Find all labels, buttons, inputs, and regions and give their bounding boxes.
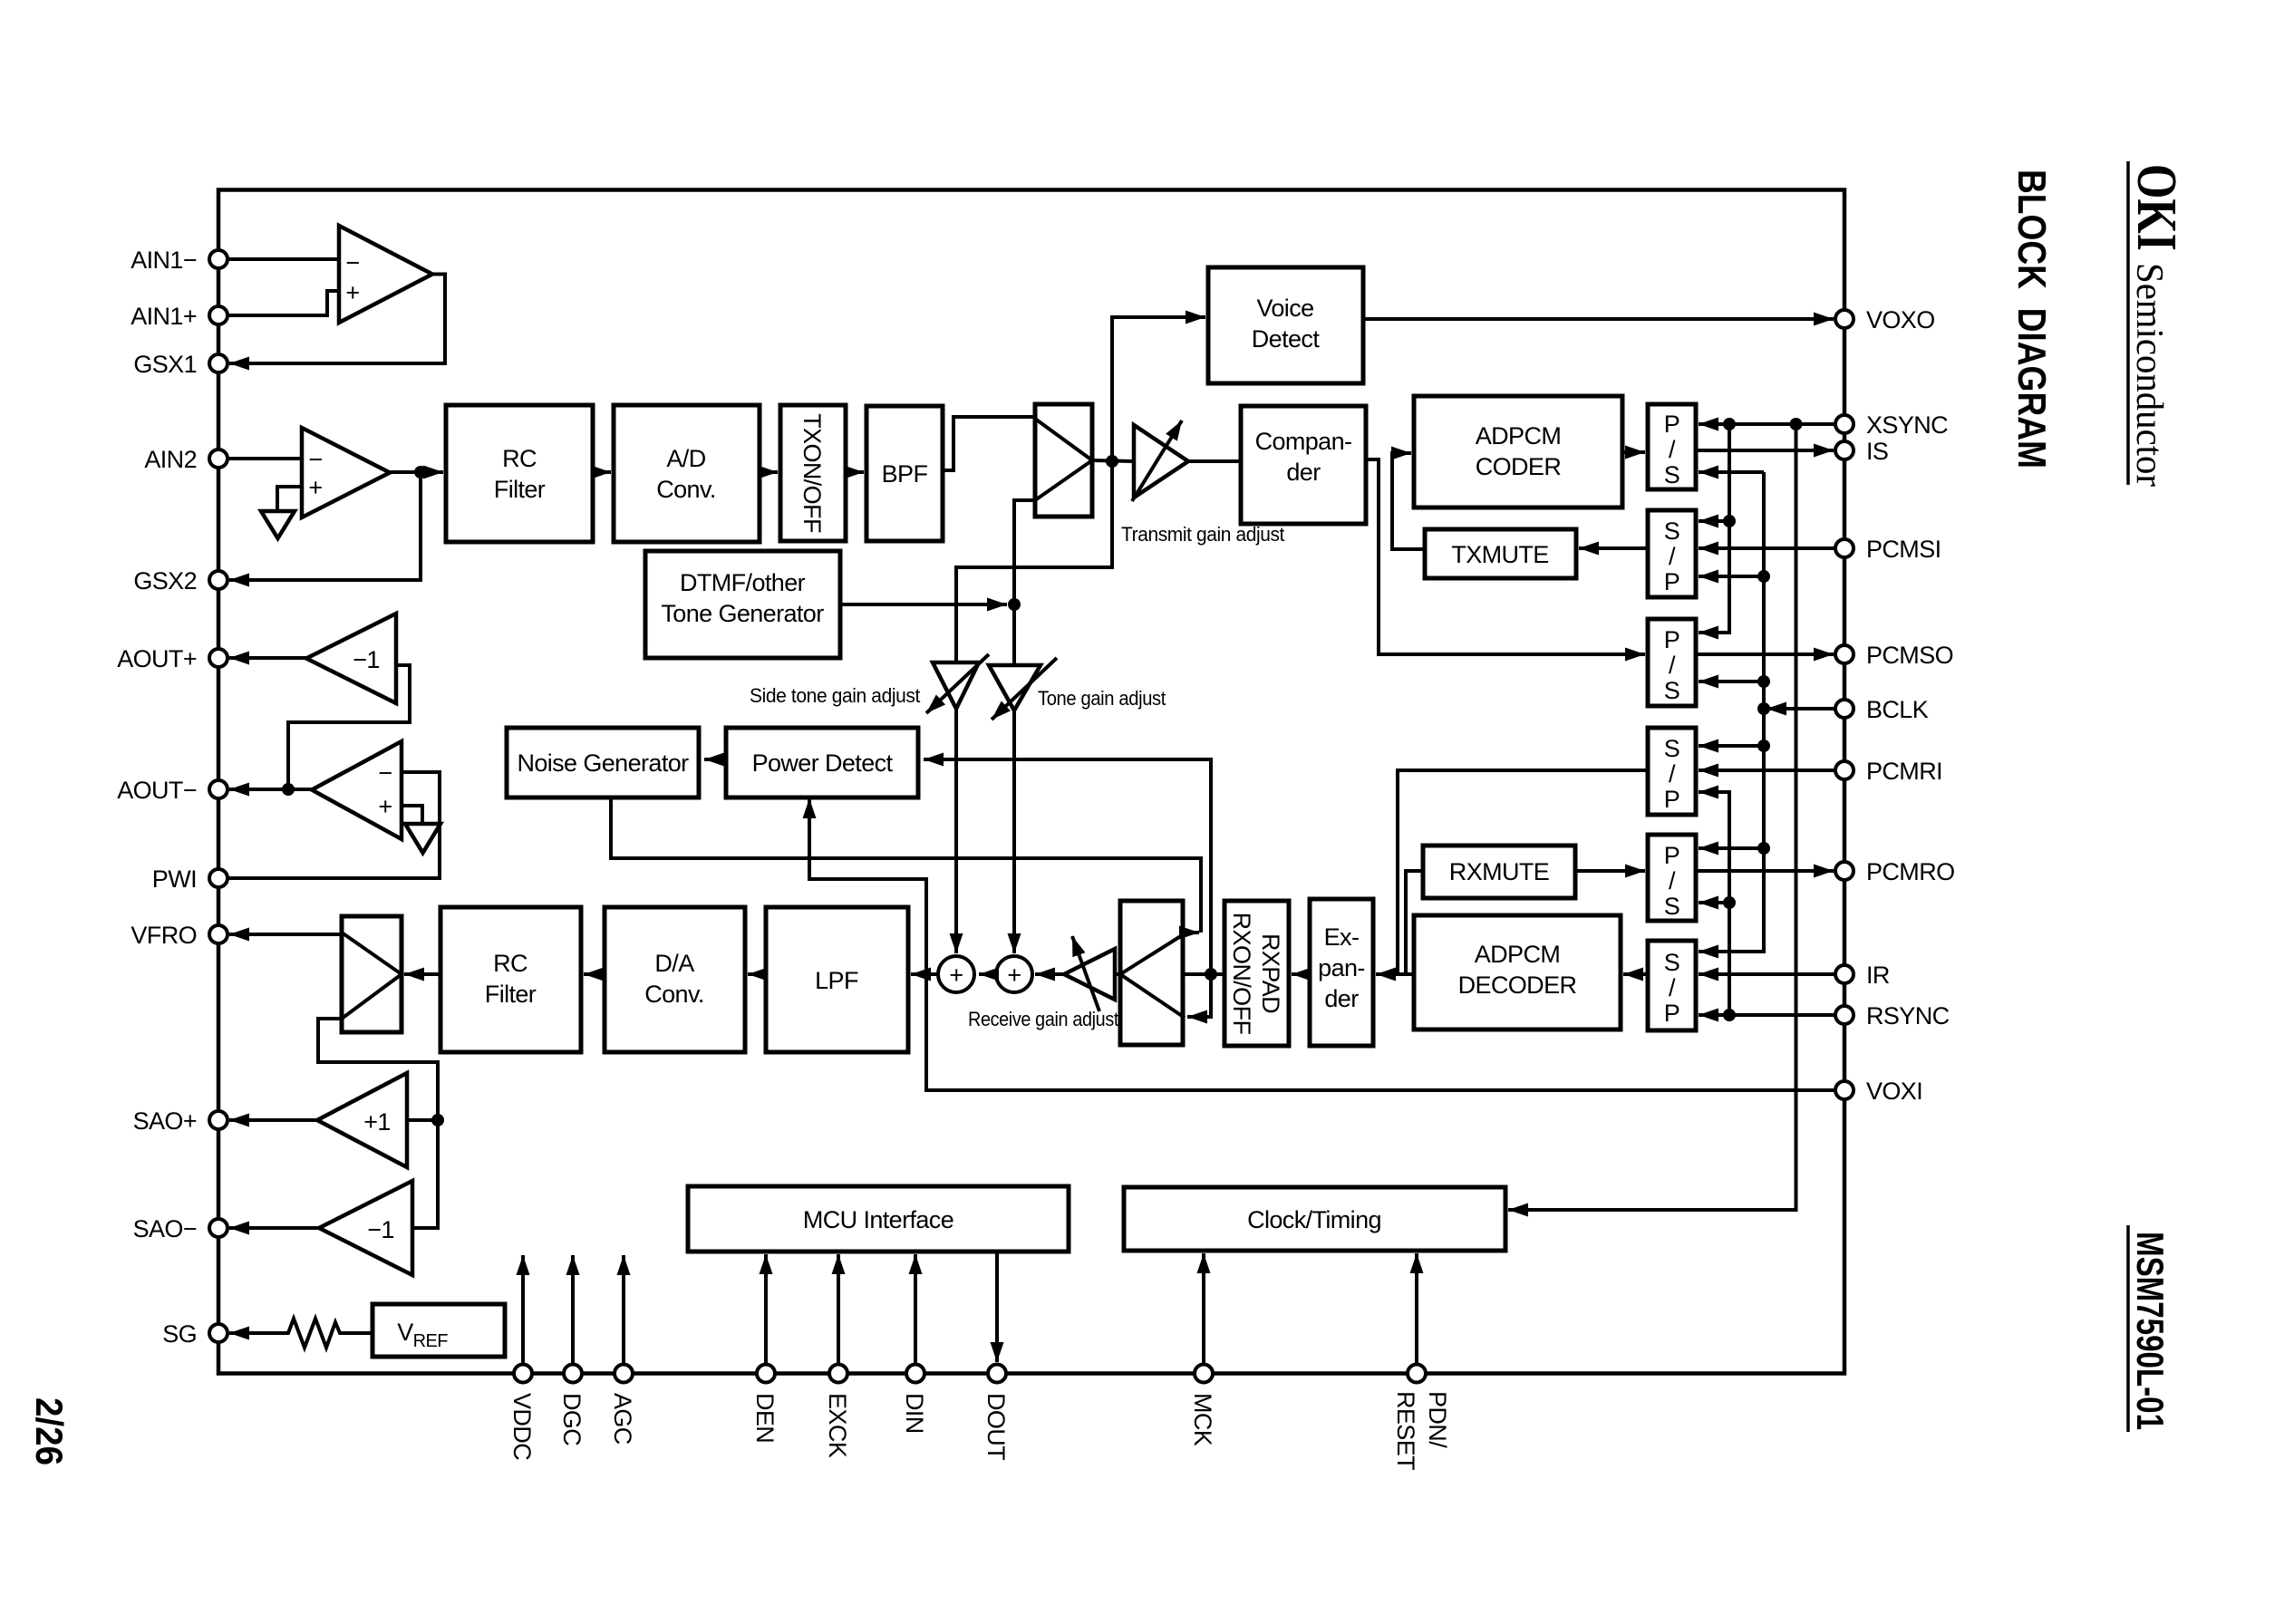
block BPF xyxy=(866,406,943,541)
node dot line B at 936 xyxy=(1757,842,1770,855)
block Noise Generator xyxy=(507,728,699,797)
wire RC Filter to A/D Conv xyxy=(593,470,611,474)
svg-text:Side tone gain adjust: Side tone gain adjust xyxy=(750,684,920,707)
svg-text:ADPCM: ADPCM xyxy=(1475,941,1561,968)
wire S1 to LPF xyxy=(911,972,938,976)
block RC Filter (transmit) xyxy=(446,405,593,542)
svg-text:SAO+: SAO+ xyxy=(133,1107,197,1135)
node AOUT- junction xyxy=(282,783,295,796)
node M1 output junction xyxy=(1106,455,1118,468)
wire DGC arrow xyxy=(571,1255,575,1365)
pin IR xyxy=(1835,965,1854,983)
side tone attenuator triangle xyxy=(933,662,979,709)
svg-text:P: P xyxy=(1664,626,1679,653)
pin VDDC xyxy=(514,1365,532,1383)
svg-text:+: + xyxy=(345,279,359,306)
selector M2 box (receive switch) xyxy=(1120,901,1183,1045)
svg-text:Filter: Filter xyxy=(494,476,546,503)
svg-text:S: S xyxy=(1664,735,1679,762)
selector M3 triangle xyxy=(342,933,402,1019)
svg-text:−: − xyxy=(308,446,322,473)
svg-text:MSM7590L-01: MSM7590L-01 xyxy=(2129,1232,2172,1430)
wire P/S1 output to IS pin xyxy=(1696,449,1834,452)
ground symbol at A2 xyxy=(261,511,295,538)
pin AOUT+ xyxy=(209,649,227,667)
pin AIN2 xyxy=(209,449,227,468)
buffer amp +1 (SAO+) xyxy=(317,1073,407,1167)
svg-text:−: − xyxy=(345,249,359,276)
pin SAO+ xyxy=(209,1111,227,1129)
svg-text:RC: RC xyxy=(502,445,537,472)
summer S2 xyxy=(996,956,1032,992)
svg-text:BLOCK DIAGRAM: BLOCK DIAGRAM xyxy=(2009,169,2054,469)
pin GSX1 xyxy=(209,354,227,372)
block Voice Detect xyxy=(1208,267,1363,383)
block RXMUTE xyxy=(1423,846,1575,898)
svg-text:XSYNC: XSYNC xyxy=(1866,411,1948,439)
svg-text:ADPCM: ADPCM xyxy=(1476,422,1562,449)
svg-text:EXCK: EXCK xyxy=(824,1393,851,1458)
pin BCLK xyxy=(1835,700,1854,718)
wire S/P2 output to TXMUTE xyxy=(1579,546,1648,550)
tone attenuator triangle xyxy=(989,665,1041,710)
svg-text:AIN1−: AIN1− xyxy=(131,246,197,274)
svg-text:Semiconductor: Semiconductor xyxy=(2128,263,2170,487)
pin DOUT xyxy=(988,1365,1006,1383)
wire junction down into M2 lower input xyxy=(1187,974,1211,1017)
svg-text:SAO−: SAO− xyxy=(133,1215,197,1242)
converter P/S 1 (XSYNC/IS) xyxy=(1648,404,1696,489)
svg-text:/: / xyxy=(1669,543,1676,570)
svg-text:Noise Generator: Noise Generator xyxy=(517,749,689,777)
svg-text:LPF: LPF xyxy=(815,967,858,994)
wire P/S5 output to PCMRO pin xyxy=(1696,869,1834,873)
pin PWI xyxy=(209,869,227,887)
svg-text:Receive gain adjust: Receive gain adjust xyxy=(968,1008,1118,1030)
wire M3 upper output to VFRO xyxy=(229,933,342,936)
sidebar rule top xyxy=(2126,161,2130,485)
svg-text:Filter: Filter xyxy=(485,981,537,1008)
svg-text:Voice: Voice xyxy=(1256,295,1313,322)
sidebar rule bottom xyxy=(2126,1225,2130,1432)
svg-text:Ex-: Ex- xyxy=(1324,923,1360,951)
wire Expander to RXPAD xyxy=(1292,972,1310,976)
wire M1 output to junction xyxy=(1092,460,1134,461)
svg-text:+: + xyxy=(378,793,392,820)
wire MCK to Clock/Timing xyxy=(1202,1253,1205,1365)
converter S/P 2 (PCMSI) xyxy=(1648,510,1696,597)
pin AOUT- xyxy=(209,780,227,798)
svg-text:P: P xyxy=(1664,568,1679,595)
wire Power Detect output to Noise Generator xyxy=(704,758,726,761)
resistor R1 xyxy=(280,1319,346,1348)
pin DIN xyxy=(906,1365,924,1383)
svg-text:Tone Generator: Tone Generator xyxy=(661,600,824,627)
wire RXMUTE output to P/S5 xyxy=(1575,869,1645,873)
svg-text:S: S xyxy=(1664,461,1679,488)
block TXON/OFF xyxy=(780,405,846,541)
block LPF xyxy=(766,907,908,1052)
svg-text:CODER: CODER xyxy=(1476,453,1562,480)
wire M3 lower output to line amps xyxy=(318,1019,438,1228)
chip outline border xyxy=(218,190,1844,1374)
svg-text:PCMSI: PCMSI xyxy=(1866,536,1941,563)
wire VDDC arrow xyxy=(521,1255,525,1365)
svg-text:GSX2: GSX2 xyxy=(133,567,197,594)
svg-text:S: S xyxy=(1664,677,1679,704)
pin AIN1- xyxy=(209,250,227,268)
svg-text:Transmit gain adjust: Transmit gain adjust xyxy=(1121,523,1284,546)
wire A3 feedback to PWI xyxy=(227,772,440,878)
node receive junction xyxy=(1205,968,1217,981)
svg-text:Conv.: Conv. xyxy=(644,981,704,1008)
pin AGC xyxy=(615,1365,633,1383)
svg-text:+: + xyxy=(949,962,963,989)
converter S/P 4 (PCMRI) xyxy=(1648,728,1696,815)
svg-text:PWI: PWI xyxy=(152,865,197,893)
svg-text:VOXO: VOXO xyxy=(1866,306,1935,333)
wire MCU Interface to DOUT xyxy=(995,1252,999,1362)
ground symbol at A3 xyxy=(405,824,440,853)
svg-text:Tone gain adjust: Tone gain adjust xyxy=(1038,687,1166,710)
svg-text:RXMUTE: RXMUTE xyxy=(1449,858,1549,885)
wire S/P6 output to ADPCM DECODER xyxy=(1623,972,1648,976)
selector M3 box (VFRO switch) xyxy=(342,916,402,1032)
block Power Detect xyxy=(726,728,918,797)
svg-text:+: + xyxy=(308,474,322,501)
svg-text:AOUT+: AOUT+ xyxy=(117,645,197,672)
svg-text:P: P xyxy=(1664,786,1679,813)
svg-text:+: + xyxy=(1007,962,1021,989)
wire stub +1 amp input xyxy=(407,1118,438,1122)
wire DEN to MCU Interface xyxy=(764,1254,768,1365)
svg-text:IS: IS xyxy=(1866,438,1888,465)
wire decoder output to Expander input xyxy=(1376,972,1414,976)
svg-text:Clock/Timing: Clock/Timing xyxy=(1247,1206,1381,1233)
wire XSYNC bus line A top xyxy=(1699,424,1729,633)
wire +1 output to SAO+ xyxy=(229,1118,317,1122)
receive gain amp xyxy=(1064,949,1115,1000)
wire LPF to D/A xyxy=(748,972,766,976)
wire RSYNC pin to S/P6 input xyxy=(1699,1013,1836,1017)
svg-text:2/26: 2/26 xyxy=(28,1397,71,1465)
pin PCMSI xyxy=(1835,539,1854,557)
wire resistor to VREF xyxy=(346,1331,373,1335)
wire Tone Generator output to node xyxy=(840,603,1007,606)
pin MCK xyxy=(1195,1365,1213,1383)
pin PCMRO xyxy=(1835,862,1854,880)
svg-text:MCU Interface: MCU Interface xyxy=(803,1206,953,1233)
wire junction down to side tone attenuator xyxy=(956,461,1112,662)
pin SG xyxy=(209,1324,227,1342)
pin DEN xyxy=(757,1365,775,1383)
wire PCMSI pin to S/P2 input xyxy=(1699,546,1836,550)
svg-text:OKI: OKI xyxy=(2125,164,2187,251)
wire PCMRI pin to S/P4 input xyxy=(1699,768,1836,772)
wire D/A to RC Filter xyxy=(584,972,605,976)
tone gain adjust arrow xyxy=(992,658,1057,720)
block Compander xyxy=(1241,406,1366,524)
selector M1 triangle xyxy=(1035,419,1092,500)
wire A/D Conv to TXON/OFF xyxy=(760,470,778,474)
wire S2 to S1 xyxy=(979,972,996,976)
wire TXMUTE output to ADPCM CODER input xyxy=(1392,453,1425,549)
svg-text:DOUT: DOUT xyxy=(982,1393,1010,1460)
block MCU Interface xyxy=(688,1186,1069,1252)
node dot line B at 636 xyxy=(1757,570,1770,583)
node dot +1 input junction xyxy=(431,1114,444,1126)
svg-text:Compan-: Compan- xyxy=(1255,428,1352,455)
node XSYNC dot on line A xyxy=(1723,418,1736,430)
svg-text:BPF: BPF xyxy=(882,460,928,488)
pin VOXO xyxy=(1835,310,1854,328)
block TXMUTE xyxy=(1425,529,1576,578)
svg-text:BCLK: BCLK xyxy=(1866,696,1929,723)
svg-text:S: S xyxy=(1664,893,1679,920)
pin PCMRI xyxy=(1835,761,1854,779)
pin GSX2 xyxy=(209,571,227,589)
selector M1 box (transmit switch) xyxy=(1035,404,1092,517)
buffer amp -1 (SAO-) xyxy=(319,1181,412,1275)
wire BPF to selector M1 xyxy=(943,417,1035,470)
pin RSYNC xyxy=(1835,1006,1854,1024)
svg-text:AOUT−: AOUT− xyxy=(117,777,197,804)
svg-text:AGC: AGC xyxy=(609,1393,636,1445)
svg-text:DIN: DIN xyxy=(901,1393,928,1434)
node dot line B at 752 xyxy=(1757,675,1770,688)
node tone bus junction xyxy=(1008,598,1021,611)
wire IR pin to S/P6 input xyxy=(1699,972,1836,976)
wire -1 amp input from AOUT- node xyxy=(288,665,410,789)
svg-text:RXON/OFF: RXON/OFF xyxy=(1228,913,1255,1035)
svg-text:D/A: D/A xyxy=(654,950,694,977)
wire line B branch to S/P4 top xyxy=(1699,744,1764,748)
buffer amp -1 (AOUT+) xyxy=(306,614,396,703)
svg-text:VOXI: VOXI xyxy=(1866,1078,1922,1105)
wire tone attenuator to summer S2 xyxy=(1012,710,1016,953)
svg-text:/: / xyxy=(1669,974,1676,1001)
node dot RSYNC line at 996 xyxy=(1723,896,1736,909)
receive gain adjust arrow xyxy=(1072,936,1099,1011)
svg-text:+1: +1 xyxy=(363,1108,391,1136)
svg-text:−1: −1 xyxy=(367,1216,394,1243)
transmit gain amp xyxy=(1134,425,1188,498)
block RC Filter (receive) xyxy=(440,907,581,1052)
wire BCLK pin to line B xyxy=(1766,707,1836,710)
wire ADPCM CODER output to P/S xyxy=(1622,450,1645,454)
pin AIN1+ xyxy=(209,306,227,324)
svg-text:RESET: RESET xyxy=(1392,1391,1419,1470)
wire RSYNC branch to P/S5 bottom xyxy=(1699,901,1729,904)
svg-text:PCMSO: PCMSO xyxy=(1866,642,1953,669)
svg-text:GSX1: GSX1 xyxy=(133,351,197,378)
node dot RSYNC line at pin row xyxy=(1723,1009,1736,1021)
pin PDN/RESET xyxy=(1408,1365,1426,1383)
pin DGC xyxy=(564,1365,582,1383)
wire A2 non-inverting input to ground xyxy=(277,487,302,511)
wire RSYNC bus line A bottom xyxy=(1699,792,1729,1015)
wire gain amp to Compander xyxy=(1188,459,1241,463)
svg-text:AIN2: AIN2 xyxy=(144,446,197,473)
svg-text:pan-: pan- xyxy=(1318,954,1365,981)
svg-text:/: / xyxy=(1669,436,1676,463)
pin XSYNC xyxy=(1835,415,1854,433)
wire junction up to Voice Detect xyxy=(1112,317,1205,461)
svg-text:P: P xyxy=(1664,1000,1679,1027)
wire M2 upper output arrow to noise line xyxy=(1184,931,1199,934)
wire AIN1- to A1 inverting input xyxy=(227,257,339,261)
wire A2 output to RC Filter with junction xyxy=(390,470,443,474)
svg-text:A/D: A/D xyxy=(666,445,705,472)
block D/A Conv. xyxy=(605,907,745,1052)
svg-text:PCMRI: PCMRI xyxy=(1866,758,1942,785)
wire VOXI to Power Detect xyxy=(809,798,1836,1090)
svg-text:VFRO: VFRO xyxy=(131,922,197,949)
wire P/S3 output to PCMSO pin xyxy=(1696,652,1834,656)
wire Compander output down to P/S PCMSO xyxy=(1366,459,1645,654)
wire noise line from Noise Generator to M2 xyxy=(611,799,1201,933)
wire GSX2 feedback branch xyxy=(229,472,421,580)
wire line B branch to P/S5 top xyxy=(1699,846,1764,850)
svg-text:PCMRO: PCMRO xyxy=(1866,858,1955,885)
svg-text:IR: IR xyxy=(1866,962,1890,989)
pin EXCK xyxy=(829,1365,847,1383)
wire line B branch to P/S3 bottom xyxy=(1699,680,1764,683)
wire A1 output feedback to GSX1 xyxy=(229,275,445,364)
wire -1 output to SAO- xyxy=(229,1226,319,1230)
block A/D Conv. xyxy=(614,405,760,542)
wire XSYNC pin to P/S1 input xyxy=(1699,422,1836,426)
wire RC Filter to selector M3 xyxy=(404,972,440,976)
op-amp A3 (AOUT- driver) xyxy=(312,741,402,839)
wire AIN2 to A2 inverting input xyxy=(227,457,302,460)
svg-text:Conv.: Conv. xyxy=(656,476,716,503)
block RXON/OFF RXPAD xyxy=(1224,901,1289,1046)
wire line B branch to S/P2 bottom xyxy=(1699,575,1764,578)
node dot line B at BCLK xyxy=(1757,702,1770,715)
block DTMF/other Tone Generator xyxy=(645,551,840,658)
wire S/P4 output down to expander node xyxy=(1398,770,1648,974)
block Clock/Timing xyxy=(1124,1187,1505,1251)
wire A3 output to AOUT- xyxy=(229,788,312,791)
wire RXPAD output to selector M2 xyxy=(1183,972,1224,976)
svg-text:P: P xyxy=(1664,842,1679,869)
svg-text:RXPAD: RXPAD xyxy=(1257,933,1284,1013)
svg-text:MCK: MCK xyxy=(1189,1393,1216,1446)
op-amp A1 (AIN1 input amp) xyxy=(339,226,432,323)
wire resistor to SG xyxy=(229,1331,280,1335)
pin SAO- xyxy=(209,1219,227,1237)
svg-text:DTMF/other: DTMF/other xyxy=(680,569,806,596)
wire -1 amp output to AOUT+ xyxy=(229,656,306,660)
block VREF xyxy=(373,1304,505,1357)
svg-text:der: der xyxy=(1286,459,1321,486)
svg-text:TXON/OFF: TXON/OFF xyxy=(799,413,826,533)
block ADPCM DECODER xyxy=(1414,915,1621,1029)
svg-text:PDN/: PDN/ xyxy=(1424,1391,1451,1448)
pin VFRO xyxy=(209,925,227,943)
converter P/S 5 (PCMRO) xyxy=(1648,835,1696,921)
converter S/P 6 (IR/RSYNC) xyxy=(1648,941,1696,1030)
wire side tone attenuator to summer S1 xyxy=(954,709,958,953)
selector M2 triangle xyxy=(1120,933,1186,1018)
svg-text:/: / xyxy=(1669,652,1676,679)
svg-text:−: − xyxy=(378,759,392,787)
side tone adjust arrow xyxy=(926,654,989,713)
wire EXCK to MCU Interface xyxy=(837,1254,840,1365)
wire A3 non-inverting input step xyxy=(402,806,422,824)
svg-text:TXMUTE: TXMUTE xyxy=(1451,541,1548,568)
block Expander xyxy=(1310,899,1373,1046)
node A2 output junction xyxy=(414,466,427,478)
wire XSYNC branch to S/P2 top xyxy=(1699,519,1729,523)
svg-text:DEN: DEN xyxy=(751,1393,779,1443)
wire M2 output to receive gain amp xyxy=(1115,972,1120,976)
svg-text:/: / xyxy=(1669,867,1676,894)
node dot line A at S/P2 branch xyxy=(1723,515,1736,527)
transmit gain adjust arrow xyxy=(1132,420,1182,501)
svg-text:Detect: Detect xyxy=(1252,325,1321,353)
svg-text:DGC: DGC xyxy=(558,1393,586,1445)
wire PDN/RESET to Clock/Timing xyxy=(1415,1253,1418,1365)
wire XSYNC line C to Clock/Timing xyxy=(1508,424,1796,1210)
wire decoder node up to RXMUTE input xyxy=(1406,871,1423,974)
svg-text:der: der xyxy=(1324,985,1359,1012)
svg-text:S: S xyxy=(1664,517,1679,545)
svg-text:P: P xyxy=(1664,411,1679,438)
op-amp A2 (AIN2 input amp) xyxy=(302,428,390,517)
wire AGC arrow xyxy=(622,1255,625,1365)
svg-text:Power Detect: Power Detect xyxy=(752,749,894,777)
pin VOXI xyxy=(1835,1081,1854,1099)
node XSYNC dot on line C xyxy=(1790,418,1803,430)
converter P/S 3 (PCMSO) xyxy=(1648,619,1696,706)
pin PCMSO xyxy=(1835,645,1854,663)
svg-text:/: / xyxy=(1669,760,1676,788)
svg-text:S: S xyxy=(1664,949,1679,976)
svg-text:VDDC: VDDC xyxy=(508,1393,536,1460)
svg-text:RC: RC xyxy=(493,950,528,977)
svg-text:RSYNC: RSYNC xyxy=(1866,1002,1950,1029)
svg-text:−1: −1 xyxy=(353,646,380,673)
wire Voice Detect to VOXO xyxy=(1363,317,1834,321)
node dot line B at 823 xyxy=(1757,739,1770,752)
wire junction up to Power Detect input xyxy=(924,759,1211,974)
block ADPCM CODER xyxy=(1414,396,1622,507)
wire DIN to MCU Interface xyxy=(914,1254,917,1365)
svg-text:DECODER: DECODER xyxy=(1458,971,1577,999)
wire BCLK bus line B xyxy=(1699,472,1764,952)
wire gain amp to summer S2 xyxy=(1035,972,1064,976)
wire line B top into P/S1 xyxy=(1699,470,1764,474)
summer S1 xyxy=(938,956,974,992)
pin IS xyxy=(1835,441,1854,459)
svg-text:AIN1+: AIN1+ xyxy=(131,303,197,330)
wire tone bus vertical into M1 lower input xyxy=(1014,500,1035,665)
wire AIN1+ to A1 non-inverting input xyxy=(227,291,339,315)
wire TXON/OFF to BPF xyxy=(846,470,864,474)
svg-text:SG: SG xyxy=(162,1320,197,1348)
